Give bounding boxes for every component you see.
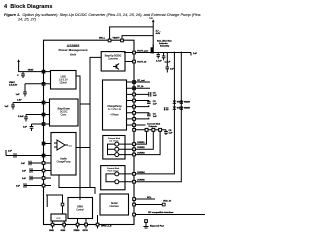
svg-text:Li+: Li+ bbox=[150, 18, 154, 20]
svg-text:Control: Control bbox=[76, 209, 84, 212]
svg-text:1uF: 1uF bbox=[22, 178, 27, 180]
svg-text:ChargePump: ChargePump bbox=[107, 106, 122, 108]
indicator LED K3 bbox=[159, 128, 162, 131]
capacitor C15 on wire bbox=[8, 151, 16, 158]
LED D3 bbox=[180, 101, 191, 104]
block step-down converter U2 bbox=[50, 99, 79, 126]
svg-text:Exposed Pad: Exposed Pad bbox=[150, 226, 164, 228]
svg-text:CURR1: CURR1 bbox=[137, 142, 145, 144]
capacitor C14 bbox=[23, 124, 33, 131]
svg-text:1uF: 1uF bbox=[5, 106, 10, 108]
svg-text:I2C compatible interface: I2C compatible interface bbox=[148, 211, 174, 214]
svg-text:150mA: 150mA bbox=[59, 82, 67, 85]
pin GND_CP bbox=[133, 124, 136, 127]
capacitor C16 bbox=[21, 161, 31, 166]
current source I3 bbox=[115, 153, 119, 157]
svg-text:1uF: 1uF bbox=[16, 186, 21, 188]
svg-text:4.4V: 4.4V bbox=[156, 32, 161, 35]
block serial interface U8 bbox=[100, 194, 129, 215]
battery line VBAT bbox=[152, 22, 154, 48]
pin CURR5 flash bbox=[133, 180, 136, 183]
pin VCP with capacitor C8 bbox=[133, 93, 136, 96]
pin D on top edge bbox=[121, 39, 124, 42]
svg-text:CP_out: CP_out bbox=[137, 79, 145, 82]
svg-text:VOUT_pwr: VOUT_pwr bbox=[137, 51, 148, 53]
flash arrows bbox=[166, 108, 169, 110]
pin SDA bbox=[133, 204, 135, 206]
pin CURR4 flash bbox=[133, 173, 136, 176]
svg-text:AS3685: AS3685 bbox=[67, 44, 80, 48]
svg-text:4 Phase: 4 Phase bbox=[110, 115, 119, 117]
capacitor C5 at rail end bbox=[164, 130, 173, 135]
capacitor C7 bbox=[162, 53, 171, 64]
svg-text:2.2uF: 2.2uF bbox=[18, 116, 24, 118]
wire from diode pin to battery rail bbox=[122, 36, 153, 40]
block GPIO control U9 bbox=[68, 198, 93, 219]
capacitor C6 bbox=[156, 53, 162, 63]
svg-text:4 Block Diagrams: 4 Block Diagrams bbox=[4, 4, 53, 10]
LED D4 bbox=[180, 107, 191, 110]
svg-text:Outputs: Outputs bbox=[149, 125, 158, 128]
pin CPA2 bbox=[42, 169, 45, 172]
top output rail bbox=[134, 52, 191, 54]
svg-text:1uF: 1uF bbox=[153, 95, 158, 97]
svg-text:Conv.: Conv. bbox=[61, 114, 67, 117]
current source I4 bbox=[115, 172, 119, 176]
block charge pump U5 bbox=[103, 80, 127, 130]
pin VOUT_pwr bbox=[133, 51, 136, 54]
pin GPIO2 bbox=[96, 223, 99, 226]
svg-text:24, 25, 27): 24, 25, 27) bbox=[17, 18, 37, 22]
svg-text:Figure 1. Option (by software: Figure 1. Option (by software): Step-Up … bbox=[4, 12, 201, 17]
svg-text:2.5-5.5V: 2.5-5.5V bbox=[9, 85, 18, 87]
pin C1P bbox=[133, 99, 136, 102]
current source I1 bbox=[115, 142, 119, 146]
resistor VDD_IO bbox=[162, 203, 165, 206]
wires from current sources to pins bbox=[108, 144, 133, 155]
svg-text:SCL: SCL bbox=[147, 197, 152, 199]
block audio charge pump U3 bbox=[51, 133, 76, 176]
svg-text:CURR4: CURR4 bbox=[137, 171, 145, 174]
pin SCL bbox=[133, 198, 135, 200]
wire LED string anode 2 bbox=[134, 53, 181, 182]
inner pin stubs left edge bbox=[45, 72, 51, 186]
svg-text:1uF: 1uF bbox=[16, 94, 21, 96]
svg-text:1uF: 1uF bbox=[170, 69, 175, 71]
pin SW_L on top edge bbox=[108, 39, 111, 42]
transistor Q1 bbox=[113, 63, 119, 69]
inductor L1 bbox=[152, 44, 154, 53]
capacitor C11 bbox=[16, 84, 27, 97]
svg-text:GND: GND bbox=[61, 230, 66, 232]
capacitor C19 bbox=[16, 183, 26, 188]
svg-text:Converter: Converter bbox=[108, 57, 118, 60]
svg-text:GPIO: GPIO bbox=[77, 207, 83, 209]
svg-text:1uF: 1uF bbox=[193, 53, 198, 55]
pin VBAT1 bbox=[42, 70, 45, 73]
ground exposed pad bbox=[143, 220, 164, 228]
svg-text:4.7uF: 4.7uF bbox=[156, 60, 162, 63]
rail end stub bbox=[190, 53, 192, 56]
arrow head VBAT bbox=[152, 19, 155, 22]
block flash current sink driver U7 bbox=[101, 166, 125, 190]
supply arrow VBAT bbox=[19, 62, 43, 72]
pin CURR3 bbox=[133, 153, 136, 156]
svg-text:GPIO: GPIO bbox=[83, 230, 89, 232]
block LDO U1 bbox=[51, 71, 77, 90]
svg-text:ChargePump: ChargePump bbox=[56, 161, 71, 164]
svg-text:W5SN: W5SN bbox=[184, 108, 191, 110]
op-amp U3A bbox=[57, 140, 65, 150]
capacitor C17 bbox=[22, 168, 32, 173]
wires from flash current sources bbox=[106, 174, 133, 182]
wire top inductor loop bbox=[110, 27, 154, 39]
pin CURR1 bbox=[133, 143, 136, 146]
pin CURR2 bbox=[133, 148, 136, 151]
svg-text:CURR2: CURR2 bbox=[137, 147, 145, 149]
svg-text:1uF: 1uF bbox=[23, 127, 28, 129]
pin C1N / capacitor C3 bbox=[133, 105, 136, 108]
svg-text:1uF: 1uF bbox=[153, 116, 158, 118]
current source I5 bbox=[115, 180, 119, 184]
internal vertical wire V2 bbox=[76, 57, 101, 187]
pin C2P bbox=[133, 112, 136, 115]
svg-text:1uF: 1uF bbox=[22, 171, 27, 173]
pin CPA3 bbox=[42, 177, 45, 180]
capacitor C18 bbox=[22, 176, 32, 181]
svg-text:CP_fb: CP_fb bbox=[137, 86, 144, 88]
wire to OTP bbox=[46, 195, 63, 214]
svg-text:VDD_IO: VDD_IO bbox=[163, 201, 171, 203]
svg-text:VOUT_fb: VOUT_fb bbox=[137, 62, 147, 64]
pin square on OTP wire bbox=[61, 203, 64, 206]
indicator LED K1 bbox=[145, 128, 148, 131]
pin CPA4 bbox=[42, 184, 45, 187]
pin XRES bbox=[76, 223, 79, 226]
svg-text:Schottky: Schottky bbox=[160, 45, 170, 48]
indicator LED K2 bbox=[152, 128, 155, 131]
svg-text:Interface: Interface bbox=[110, 205, 120, 208]
pin VBAT2 bbox=[42, 83, 45, 86]
svg-text:OTP: OTP bbox=[56, 218, 61, 220]
svg-text:Step-Up DC/DC: Step-Up DC/DC bbox=[105, 55, 122, 58]
svg-text:1.8V: 1.8V bbox=[17, 100, 22, 102]
pin VAUDIO with supply bbox=[42, 154, 45, 157]
svg-text:Out: Out bbox=[69, 144, 73, 147]
svg-text:W5SN: W5SN bbox=[184, 102, 191, 104]
pin GPIO1 bbox=[85, 223, 88, 226]
capacitor C12 bbox=[5, 103, 15, 110]
svg-text:1uF: 1uF bbox=[8, 151, 13, 153]
capacitor C10 bbox=[17, 72, 25, 78]
svg-text:CURR5: CURR5 bbox=[137, 180, 145, 182]
pin C2N / capacitor C4 bbox=[133, 118, 136, 121]
block OTP U10 bbox=[51, 214, 66, 221]
svg-text:1uF: 1uF bbox=[153, 104, 158, 106]
LED D2 bbox=[173, 107, 184, 110]
block step-up DC/DC converter U4 bbox=[101, 52, 125, 71]
pin CP2 bbox=[133, 87, 136, 90]
block current sink driver U6 bbox=[103, 136, 125, 160]
pin AGND bbox=[42, 142, 45, 145]
svg-text:1x / 1.5x / 2x: 1x / 1.5x / 2x bbox=[108, 109, 122, 111]
svg-text:C: C bbox=[17, 75, 19, 77]
pin SD_LX bbox=[42, 123, 45, 126]
svg-text:GND: GND bbox=[49, 230, 54, 232]
svg-text:1uF: 1uF bbox=[21, 163, 26, 165]
capacitor C9 on rail bbox=[166, 53, 175, 73]
junctions on rail bbox=[174, 52, 176, 54]
capacitor C13 bbox=[18, 115, 28, 122]
pin GND2 bbox=[63, 223, 66, 226]
internal vertical wire V1 bbox=[76, 76, 90, 200]
svg-text:CURR3: CURR3 bbox=[137, 153, 145, 155]
svg-text:GPIO_1..8: GPIO_1..8 bbox=[101, 226, 112, 228]
pin CPA1 bbox=[42, 162, 45, 165]
indicator LED rail pin bbox=[133, 129, 136, 132]
svg-text:SW_L: SW_L bbox=[99, 38, 106, 40]
svg-text:XRES: XRES bbox=[74, 230, 80, 232]
big block AS3685 PMU bbox=[44, 40, 135, 224]
pin INT bbox=[133, 214, 135, 216]
svg-text:Unit: Unit bbox=[70, 52, 76, 56]
svg-text:VBATT: VBATT bbox=[113, 37, 121, 40]
svg-text:1uF: 1uF bbox=[169, 133, 174, 135]
wire LED string anode 1 bbox=[134, 53, 174, 174]
pin VOUT_SD bbox=[42, 113, 45, 116]
pin VOUT_LDO bbox=[42, 101, 45, 104]
pin GND1 bbox=[51, 223, 54, 226]
LED D1 bbox=[173, 101, 184, 104]
pin CP1 bbox=[133, 81, 136, 84]
pin VOUT_fb bbox=[133, 60, 136, 63]
current source I2 bbox=[115, 147, 119, 151]
wire from audio block to serial interface bbox=[59, 175, 95, 194]
